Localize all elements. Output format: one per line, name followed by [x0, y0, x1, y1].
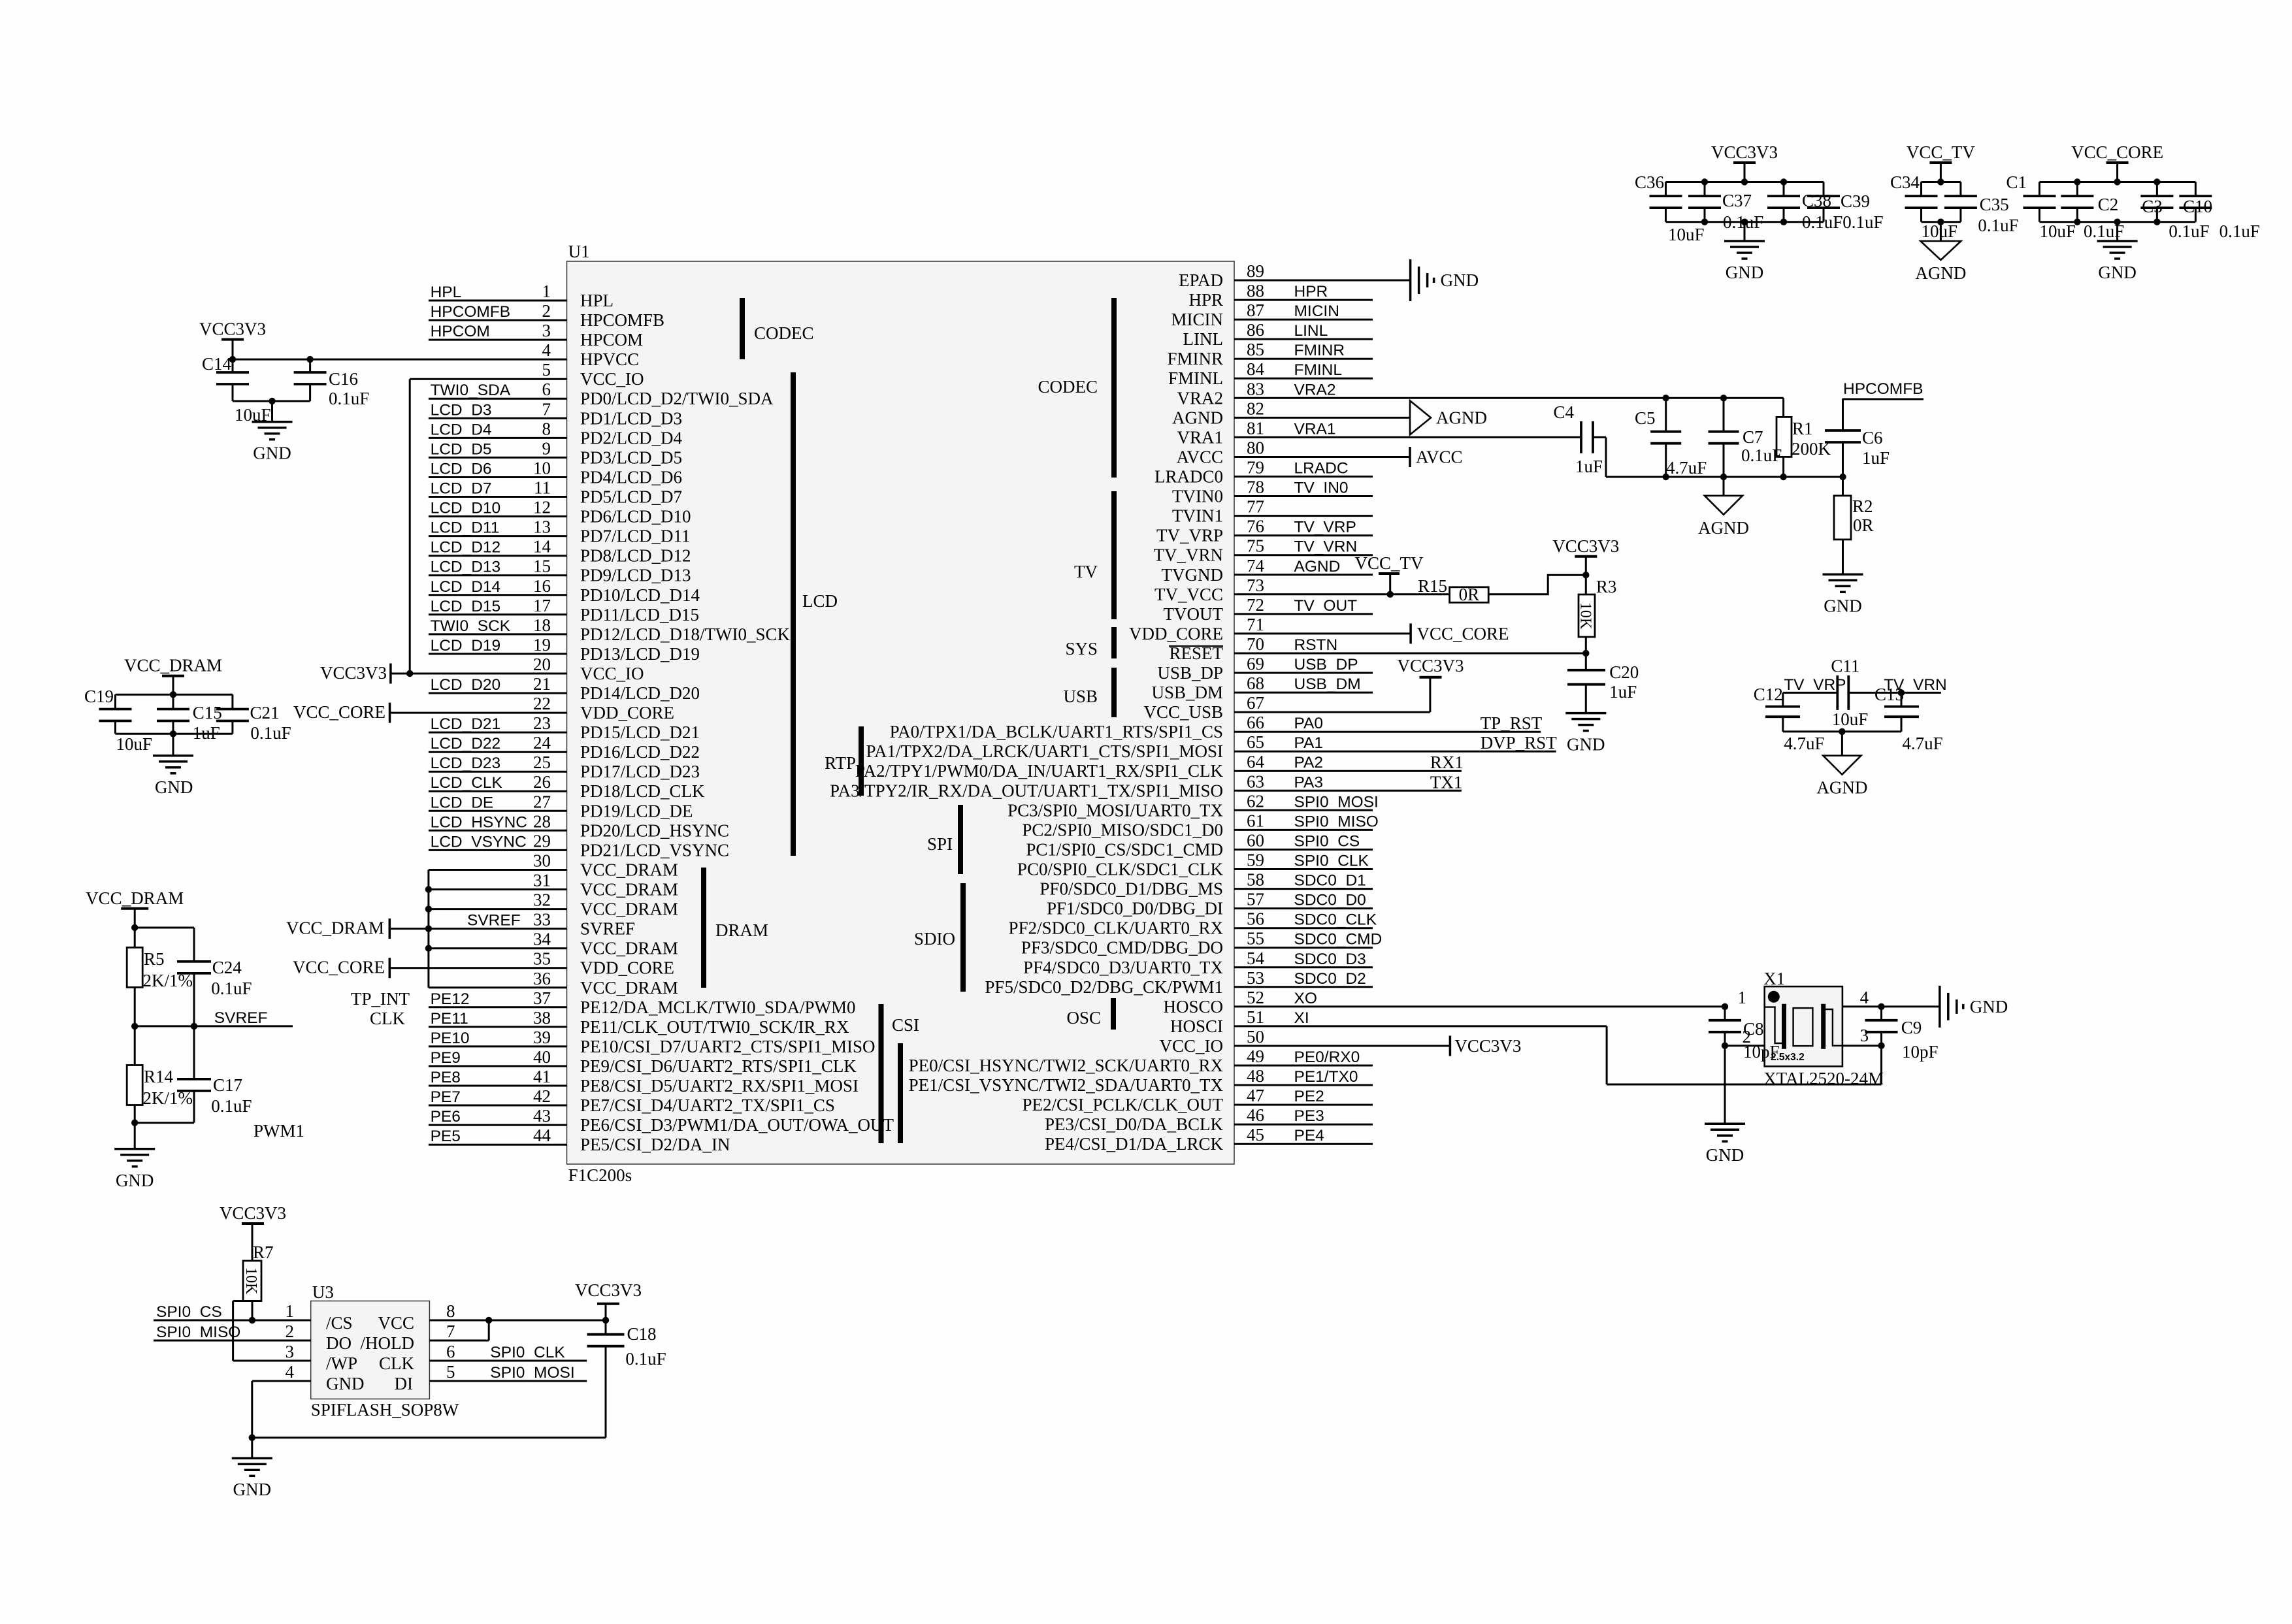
svg-text:21: 21: [533, 674, 551, 694]
svg-text:PE10/CSI_D7/UART2_CTS/SPI1_MIS: PE10/CSI_D7/UART2_CTS/SPI1_MISO: [580, 1037, 875, 1056]
svg-text:59: 59: [1247, 851, 1264, 870]
svg-text:VCC_DRAM: VCC_DRAM: [124, 656, 222, 675]
svg-text:LCD_D14: LCD_D14: [431, 578, 501, 596]
svg-text:PD17/LCD_D23: PD17/LCD_D23: [580, 762, 700, 781]
svg-text:USB_DP: USB_DP: [1294, 656, 1358, 674]
svg-text:35: 35: [533, 949, 551, 969]
svg-text:C34: C34: [1890, 172, 1920, 192]
svg-text:86: 86: [1247, 320, 1264, 340]
svg-text:SPI0_CLK: SPI0_CLK: [490, 1344, 565, 1361]
svg-text:LCD_D10: LCD_D10: [431, 500, 501, 517]
svg-text:PD9/LCD_D13: PD9/LCD_D13: [580, 566, 691, 585]
svg-text:MICIN: MICIN: [1294, 302, 1339, 320]
svg-text:HPCOMFB: HPCOMFB: [580, 310, 664, 330]
svg-text:34: 34: [533, 930, 551, 949]
svg-text:LCD_D7: LCD_D7: [431, 480, 492, 498]
svg-text:PE1/CSI_VSYNC/TWI2_SDA/UART0_T: PE1/CSI_VSYNC/TWI2_SDA/UART0_TX: [909, 1075, 1224, 1095]
svg-text:0.1uF: 0.1uF: [250, 723, 291, 743]
svg-text:VCC_DRAM: VCC_DRAM: [580, 880, 678, 900]
svg-text:1: 1: [1738, 988, 1747, 1007]
svg-text:71: 71: [1247, 615, 1264, 634]
svg-text:PF0/SDC0_D1/DBG_MS: PF0/SDC0_D1/DBG_MS: [1040, 879, 1223, 899]
svg-text:15: 15: [533, 557, 551, 576]
svg-text:52: 52: [1247, 988, 1264, 1007]
svg-text:VCC_DRAM: VCC_DRAM: [580, 978, 678, 998]
svg-text:LCD_D4: LCD_D4: [431, 421, 492, 438]
svg-text:25: 25: [533, 753, 551, 772]
svg-text:VCC_USB: VCC_USB: [1143, 702, 1223, 722]
svg-text:LCD_D23: LCD_D23: [431, 755, 501, 772]
svg-text:79: 79: [1247, 458, 1264, 478]
svg-text:4.7uF: 4.7uF: [1784, 734, 1824, 753]
svg-text:GND: GND: [326, 1374, 365, 1393]
svg-text:FMINL: FMINL: [1168, 368, 1223, 388]
svg-text:C19: C19: [84, 687, 114, 706]
svg-text:41: 41: [533, 1067, 551, 1086]
svg-text:0.1uF: 0.1uF: [625, 1349, 666, 1369]
svg-text:SVREF: SVREF: [467, 912, 521, 930]
svg-text:53: 53: [1247, 968, 1264, 988]
svg-text:PE12/DA_MCLK/TWI0_SDA/PWM0: PE12/DA_MCLK/TWI0_SDA/PWM0: [580, 998, 856, 1017]
svg-text:45: 45: [1247, 1125, 1264, 1145]
svg-text:VCC: VCC: [378, 1313, 414, 1333]
svg-text:VRA2: VRA2: [1177, 388, 1223, 408]
svg-text:0.1uF: 0.1uF: [1978, 216, 2018, 235]
svg-text:2: 2: [286, 1322, 295, 1341]
svg-text:PE12: PE12: [431, 990, 470, 1008]
svg-text:VCC_DRAM: VCC_DRAM: [580, 939, 678, 958]
svg-text:TV_VRN: TV_VRN: [1294, 538, 1358, 556]
svg-text:PE2/CSI_PCLK/CLK_OUT: PE2/CSI_PCLK/CLK_OUT: [1022, 1095, 1223, 1114]
svg-text:F1C200s: F1C200s: [568, 1165, 632, 1185]
svg-text:9: 9: [542, 438, 551, 458]
svg-text:GND: GND: [1824, 596, 1862, 615]
svg-text:64: 64: [1247, 752, 1265, 771]
svg-text:200K: 200K: [1792, 439, 1831, 459]
svg-text:HOSCO: HOSCO: [1163, 997, 1223, 1016]
svg-text:PA1: PA1: [1294, 734, 1324, 752]
svg-text:LCD_D15: LCD_D15: [431, 598, 501, 615]
svg-text:3: 3: [542, 321, 551, 340]
svg-text:14: 14: [533, 537, 551, 557]
svg-text:CSI: CSI: [892, 1015, 919, 1035]
svg-text:LCD_D12: LCD_D12: [431, 539, 501, 557]
svg-text:HPCOMFB: HPCOMFB: [1843, 380, 1924, 398]
svg-text:SYS: SYS: [1065, 639, 1098, 658]
svg-text:PE6/CSI_D3/PWM1/DA_OUT/OWA_OUT: PE6/CSI_D3/PWM1/DA_OUT/OWA_OUT: [580, 1115, 894, 1135]
svg-text:VCC3V3: VCC3V3: [199, 319, 266, 339]
svg-text:C16: C16: [329, 369, 358, 389]
svg-text:8: 8: [446, 1301, 455, 1321]
svg-text:36: 36: [533, 969, 551, 988]
svg-text:MICIN: MICIN: [1171, 310, 1224, 329]
svg-text:C7: C7: [1743, 427, 1763, 447]
svg-text:XO: XO: [1294, 990, 1317, 1007]
svg-text:4.7uF: 4.7uF: [1666, 458, 1707, 478]
svg-text:5: 5: [446, 1362, 455, 1382]
svg-text:LCD_D5: LCD_D5: [431, 440, 492, 458]
svg-text:PE11: PE11: [431, 1010, 468, 1028]
svg-text:PD19/LCD_DE: PD19/LCD_DE: [580, 801, 693, 820]
svg-text:PF3/SDC0_CMD/DBG_DO: PF3/SDC0_CMD/DBG_DO: [1021, 938, 1223, 958]
svg-text:C24: C24: [212, 958, 242, 977]
svg-text:66: 66: [1247, 713, 1264, 732]
svg-text:AVCC: AVCC: [1416, 447, 1463, 467]
svg-text:LCD_D3: LCD_D3: [431, 401, 492, 419]
svg-text:0.1uF: 0.1uF: [211, 1096, 252, 1116]
svg-text:DI: DI: [395, 1374, 414, 1393]
svg-text:33: 33: [533, 910, 551, 930]
svg-text:PA3/TPY2/IR_RX/DA_OUT/UART1_TX: PA3/TPY2/IR_RX/DA_OUT/UART1_TX/SPI1_MISO: [830, 781, 1223, 800]
svg-text:SDC0_D2: SDC0_D2: [1294, 970, 1366, 988]
svg-text:PE3/CSI_D0/DA_BCLK: PE3/CSI_D0/DA_BCLK: [1045, 1114, 1224, 1134]
svg-text:PE2: PE2: [1294, 1088, 1324, 1105]
svg-text:C17: C17: [213, 1075, 242, 1095]
svg-text:PF5/SDC0_D2/DBG_CK/PWM1: PF5/SDC0_D2/DBG_CK/PWM1: [985, 977, 1223, 997]
svg-text:LCD_D13: LCD_D13: [431, 559, 501, 576]
svg-text:SPI0_MISO: SPI0_MISO: [156, 1324, 240, 1341]
svg-text:GND: GND: [1441, 270, 1479, 290]
svg-text:87: 87: [1247, 300, 1264, 320]
svg-text:PD7/LCD_D11: PD7/LCD_D11: [580, 527, 691, 546]
svg-text:44: 44: [533, 1126, 551, 1145]
svg-text:R7: R7: [253, 1242, 274, 1262]
svg-text:11: 11: [534, 478, 551, 498]
svg-text:0.1uF: 0.1uF: [2219, 221, 2260, 241]
svg-text:40: 40: [533, 1047, 551, 1067]
svg-text:39: 39: [533, 1028, 551, 1047]
svg-text:C12: C12: [1754, 685, 1783, 704]
svg-text:CODEC: CODEC: [1038, 377, 1098, 397]
svg-text:PA0: PA0: [1294, 715, 1324, 732]
svg-text:4.7uF: 4.7uF: [1902, 734, 1942, 753]
svg-text:C11: C11: [1831, 657, 1859, 676]
svg-text:TWI0_SCK: TWI0_SCK: [431, 617, 511, 635]
svg-text:U3: U3: [312, 1282, 334, 1302]
svg-text:SDC0_D1: SDC0_D1: [1294, 872, 1366, 890]
svg-text:C10: C10: [2183, 197, 2212, 216]
svg-text:SDIO: SDIO: [914, 929, 955, 949]
svg-text:TV_OUT: TV_OUT: [1294, 597, 1358, 615]
svg-text:VCC_TV: VCC_TV: [1354, 553, 1424, 573]
svg-text:0.1uF: 0.1uF: [1741, 446, 1782, 465]
svg-text:C1: C1: [2006, 172, 2027, 192]
svg-text:SDC0_CMD: SDC0_CMD: [1294, 931, 1383, 949]
svg-text:VCC_IO: VCC_IO: [580, 369, 644, 389]
svg-text:3: 3: [1860, 1026, 1869, 1045]
svg-text:PD15/LCD_D21: PD15/LCD_D21: [580, 723, 700, 742]
svg-text:GND: GND: [253, 444, 291, 463]
svg-text:PE3: PE3: [1294, 1107, 1324, 1125]
svg-text:FMINL: FMINL: [1294, 361, 1343, 379]
svg-text:PE4: PE4: [1294, 1127, 1324, 1145]
svg-text:54: 54: [1247, 949, 1265, 968]
svg-text:LCD_DE: LCD_DE: [431, 794, 494, 811]
svg-text:PD4/LCD_D6: PD4/LCD_D6: [580, 468, 682, 487]
svg-text:46: 46: [1247, 1105, 1264, 1125]
svg-text:2: 2: [1743, 1027, 1752, 1047]
svg-text:C38: C38: [1802, 191, 1831, 210]
svg-text:USB_DM: USB_DM: [1294, 675, 1361, 693]
svg-text:CLK: CLK: [379, 1354, 415, 1373]
svg-text:TP_RST: TP_RST: [1481, 713, 1543, 733]
svg-text:19: 19: [533, 635, 551, 655]
svg-text:PE9: PE9: [431, 1049, 461, 1067]
svg-text:PC3/SPI0_MOSI/UART0_TX: PC3/SPI0_MOSI/UART0_TX: [1007, 800, 1223, 820]
svg-text:TV_VCC: TV_VCC: [1154, 585, 1223, 604]
svg-text:HPL: HPL: [431, 284, 462, 301]
svg-text:CLK: CLK: [370, 1009, 406, 1028]
svg-text:PD1/LCD_D3: PD1/LCD_D3: [580, 408, 682, 428]
svg-text:VCC_TV: VCC_TV: [1907, 142, 1976, 162]
svg-text:GND: GND: [233, 1480, 272, 1499]
svg-text:VCC_CORE: VCC_CORE: [293, 958, 385, 977]
svg-text:C18: C18: [627, 1324, 657, 1344]
svg-text:TV_VRP: TV_VRP: [1156, 526, 1223, 545]
svg-text:VRA1: VRA1: [1294, 420, 1336, 438]
svg-text:SPIFLASH_SOP8W: SPIFLASH_SOP8W: [311, 1400, 459, 1420]
svg-text:49: 49: [1247, 1047, 1264, 1066]
svg-text:LRADC0: LRADC0: [1154, 467, 1223, 487]
svg-text:VCC_IO: VCC_IO: [1159, 1036, 1223, 1056]
svg-text:0.1uF: 0.1uF: [1723, 212, 1763, 232]
svg-text:0.1uF: 0.1uF: [329, 389, 369, 408]
svg-text:PD11/LCD_D15: PD11/LCD_D15: [580, 605, 699, 625]
svg-text:72: 72: [1247, 595, 1264, 615]
svg-text:PA2/TPY1/PWM0/DA_IN/UART1_RX/S: PA2/TPY1/PWM0/DA_IN/UART1_RX/SPI1_CLK: [855, 761, 1223, 781]
svg-text:10uF: 10uF: [1832, 709, 1869, 729]
svg-text:0R: 0R: [1853, 515, 1874, 535]
svg-text:VRA1: VRA1: [1177, 427, 1223, 447]
svg-text:4: 4: [542, 340, 551, 360]
svg-text:67: 67: [1247, 693, 1264, 713]
svg-text:LCD: LCD: [802, 591, 838, 611]
svg-text:EPAD: EPAD: [1179, 270, 1223, 290]
svg-text:43: 43: [533, 1106, 551, 1126]
svg-text:PE0/CSI_HSYNC/TWI2_SCK/UART0_R: PE0/CSI_HSYNC/TWI2_SCK/UART0_RX: [909, 1056, 1224, 1075]
svg-text:C37: C37: [1722, 191, 1752, 210]
svg-text:69: 69: [1247, 654, 1264, 674]
svg-text:50: 50: [1247, 1027, 1264, 1047]
svg-text:18: 18: [533, 615, 551, 635]
svg-text:SDC0_D3: SDC0_D3: [1294, 950, 1366, 968]
svg-text:VCC3V3: VCC3V3: [575, 1280, 642, 1300]
svg-text:VCC_DRAM: VCC_DRAM: [86, 888, 184, 908]
svg-text:PD16/LCD_D22: PD16/LCD_D22: [580, 742, 700, 762]
svg-text:81: 81: [1247, 418, 1264, 438]
svg-text:VCC3V3: VCC3V3: [220, 1203, 286, 1223]
svg-text:8: 8: [542, 419, 551, 438]
svg-text:C15: C15: [193, 703, 222, 723]
svg-text:C5: C5: [1635, 408, 1656, 428]
svg-text:VCC_CORE: VCC_CORE: [1417, 624, 1509, 643]
svg-text:U1: U1: [568, 242, 590, 261]
svg-text:27: 27: [533, 792, 551, 811]
svg-text:HPCOMFB: HPCOMFB: [431, 303, 511, 321]
svg-text:75: 75: [1247, 536, 1264, 556]
svg-text:10: 10: [533, 459, 551, 478]
svg-text:77: 77: [1247, 497, 1264, 517]
svg-text:TV_IN0: TV_IN0: [1294, 479, 1349, 497]
svg-text:48: 48: [1247, 1066, 1264, 1086]
svg-text:PF2/SDC0_CLK/UART0_RX: PF2/SDC0_CLK/UART0_RX: [1009, 918, 1224, 938]
svg-text:C6: C6: [1862, 428, 1883, 447]
svg-text:VCC_IO: VCC_IO: [580, 664, 644, 683]
svg-text:LRADC: LRADC: [1294, 460, 1349, 478]
svg-text:73: 73: [1247, 576, 1264, 595]
svg-text:16: 16: [533, 576, 551, 596]
svg-text:10uF: 10uF: [1922, 221, 1958, 241]
svg-text:GND: GND: [155, 777, 193, 797]
svg-text:RTP: RTP: [825, 753, 856, 773]
svg-text:TP_INT: TP_INT: [351, 989, 410, 1009]
svg-text:10K: 10K: [242, 1267, 259, 1295]
svg-text:DVP_RST: DVP_RST: [1481, 733, 1558, 753]
svg-text:17: 17: [533, 596, 551, 615]
svg-text:22: 22: [533, 694, 551, 713]
svg-text:LCD_CLK: LCD_CLK: [431, 774, 503, 792]
svg-text:LCD_D11: LCD_D11: [431, 519, 500, 537]
svg-text:R3: R3: [1596, 577, 1617, 596]
svg-text:12: 12: [533, 498, 551, 517]
svg-text:78: 78: [1247, 478, 1264, 497]
svg-text:PD3/LCD_D5: PD3/LCD_D5: [580, 447, 682, 467]
svg-text:47: 47: [1247, 1086, 1264, 1105]
svg-text:PA3: PA3: [1294, 773, 1324, 791]
svg-text:PE6: PE6: [431, 1108, 461, 1126]
svg-text:HPL: HPL: [580, 291, 614, 310]
svg-text:TWI0_SDA: TWI0_SDA: [431, 382, 511, 399]
svg-text:FMINR: FMINR: [1294, 342, 1345, 359]
svg-text:70: 70: [1247, 634, 1264, 654]
svg-text:26: 26: [533, 772, 551, 792]
svg-text:PE9/CSI_D6/UART2_RTS/SPI1_CLK: PE9/CSI_D6/UART2_RTS/SPI1_CLK: [580, 1056, 857, 1076]
svg-text:XI: XI: [1294, 1009, 1309, 1027]
svg-text:PWM1: PWM1: [254, 1121, 304, 1141]
svg-text:VDD_CORE: VDD_CORE: [580, 703, 674, 723]
svg-text:C4: C4: [1553, 402, 1574, 422]
svg-text:PE5/CSI_D2/DA_IN: PE5/CSI_D2/DA_IN: [580, 1135, 730, 1154]
svg-text:PC2/SPI0_MISO/SDC1_D0: PC2/SPI0_MISO/SDC1_D0: [1022, 820, 1223, 839]
svg-text:0.1uF: 0.1uF: [2084, 221, 2124, 241]
svg-text:PF1/SDC0_D0/DBG_DI: PF1/SDC0_D0/DBG_DI: [1047, 899, 1223, 918]
svg-text:C36: C36: [1635, 172, 1664, 192]
svg-text:30: 30: [533, 851, 551, 871]
svg-text:TX1: TX1: [1430, 772, 1463, 792]
svg-text:10uF: 10uF: [2040, 221, 2076, 241]
svg-text:29: 29: [533, 831, 551, 851]
svg-text:74: 74: [1247, 556, 1265, 576]
svg-text:PD20/LCD_HSYNC: PD20/LCD_HSYNC: [580, 820, 729, 840]
svg-text:VCC_CORE: VCC_CORE: [2071, 142, 2163, 162]
svg-text:AGND: AGND: [1172, 408, 1223, 427]
svg-text:TVOUT: TVOUT: [1164, 604, 1224, 624]
svg-text:10uF: 10uF: [116, 734, 153, 754]
svg-text:CODEC: CODEC: [754, 323, 814, 343]
svg-text:LCD_D22: LCD_D22: [431, 735, 501, 753]
svg-text:PE10: PE10: [431, 1030, 470, 1047]
svg-text:3: 3: [286, 1342, 295, 1361]
svg-text:83: 83: [1247, 379, 1264, 398]
svg-text:PD8/LCD_D12: PD8/LCD_D12: [580, 546, 691, 566]
svg-text:24: 24: [533, 733, 551, 753]
svg-text:2: 2: [542, 301, 551, 321]
svg-text:R1: R1: [1792, 419, 1813, 438]
svg-text:SDC0_CLK: SDC0_CLK: [1294, 911, 1377, 929]
svg-text:10uF: 10uF: [1668, 225, 1705, 244]
svg-text:PD12/LCD_D18/TWI0_SCK: PD12/LCD_D18/TWI0_SCK: [580, 625, 791, 644]
svg-text:USB_DP: USB_DP: [1157, 663, 1223, 683]
svg-text:PF4/SDC0_D3/UART0_TX: PF4/SDC0_D3/UART0_TX: [1023, 958, 1223, 977]
svg-text:LINL: LINL: [1294, 322, 1328, 340]
svg-text:HPVCC: HPVCC: [580, 349, 639, 369]
svg-text:10uF: 10uF: [235, 405, 271, 425]
svg-text:PA2: PA2: [1294, 754, 1324, 771]
svg-text:GND: GND: [1706, 1145, 1744, 1165]
svg-text:PD10/LCD_D14: PD10/LCD_D14: [580, 585, 700, 605]
svg-text:PE1/TX0: PE1/TX0: [1294, 1068, 1358, 1086]
svg-text:89: 89: [1247, 261, 1264, 281]
svg-text:C3: C3: [2142, 197, 2163, 216]
svg-text:SPI0_CS: SPI0_CS: [156, 1303, 222, 1321]
svg-text:20: 20: [533, 655, 551, 674]
svg-text:DRAM: DRAM: [715, 920, 768, 940]
svg-text:GND: GND: [2098, 263, 2136, 282]
svg-text:PE7/CSI_D4/UART2_TX/SPI1_CS: PE7/CSI_D4/UART2_TX/SPI1_CS: [580, 1096, 835, 1115]
svg-text:65: 65: [1247, 732, 1264, 752]
svg-text:1: 1: [542, 282, 551, 301]
svg-text:PE11/CLK_OUT/TWI0_SCK/IR_RX: PE11/CLK_OUT/TWI0_SCK/IR_RX: [580, 1017, 849, 1037]
svg-text:DO: DO: [326, 1333, 352, 1353]
svg-text:38: 38: [533, 1008, 551, 1028]
svg-text:VCC_DRAM: VCC_DRAM: [286, 918, 384, 938]
svg-text:PC0/SPI0_CLK/SDC1_CLK: PC0/SPI0_CLK/SDC1_CLK: [1017, 860, 1224, 879]
svg-text:PD21/LCD_VSYNC: PD21/LCD_VSYNC: [580, 840, 729, 860]
svg-text:76: 76: [1247, 517, 1264, 536]
svg-text:TV_VRP: TV_VRP: [1784, 676, 1846, 694]
svg-text:VCC3V3: VCC3V3: [320, 663, 387, 683]
svg-text:HPCOM: HPCOM: [580, 330, 643, 349]
svg-text:PD18/LCD_CLK: PD18/LCD_CLK: [580, 781, 705, 801]
svg-text:PD6/LCD_D10: PD6/LCD_D10: [580, 507, 691, 527]
svg-text:0.1uF: 0.1uF: [211, 979, 252, 998]
svg-text:82: 82: [1247, 398, 1264, 418]
svg-text:PE0/RX0: PE0/RX0: [1294, 1048, 1360, 1066]
svg-text:63: 63: [1247, 771, 1264, 791]
svg-text:/CS: /CS: [326, 1313, 353, 1333]
svg-text:VDD_CORE: VDD_CORE: [1129, 624, 1223, 643]
svg-text:VCC_DRAM: VCC_DRAM: [580, 860, 678, 880]
svg-text:4: 4: [1860, 988, 1869, 1007]
svg-text:TVIN0: TVIN0: [1172, 487, 1223, 506]
svg-text:AGND: AGND: [1294, 558, 1341, 576]
svg-text:SPI0_CLK: SPI0_CLK: [1294, 853, 1369, 870]
svg-text:C20: C20: [1609, 662, 1639, 682]
svg-text:OSC: OSC: [1066, 1008, 1101, 1028]
svg-text:AVCC: AVCC: [1176, 447, 1223, 467]
svg-text:HPR: HPR: [1188, 290, 1223, 310]
svg-text:VRA2: VRA2: [1294, 381, 1336, 398]
svg-text:/WP: /WP: [326, 1354, 357, 1373]
svg-text:FMINR: FMINR: [1167, 349, 1223, 368]
svg-text:TV_VRN: TV_VRN: [1154, 545, 1224, 565]
svg-text:1uF: 1uF: [1575, 457, 1603, 476]
svg-text:5: 5: [542, 360, 551, 380]
svg-text:PE5: PE5: [431, 1128, 461, 1145]
svg-text:55: 55: [1247, 929, 1264, 949]
svg-text:AGND: AGND: [1436, 408, 1487, 427]
svg-text:VDD_CORE: VDD_CORE: [580, 958, 674, 978]
